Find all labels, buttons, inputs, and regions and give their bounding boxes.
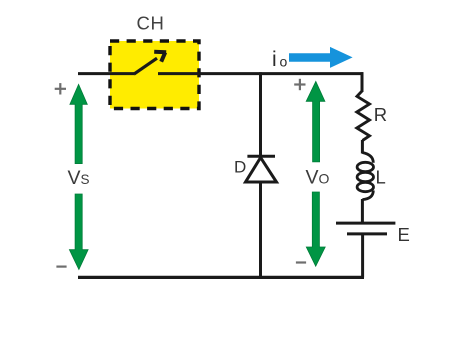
svg-text:D: D <box>234 157 246 176</box>
svg-text:V: V <box>68 167 81 189</box>
source voltage arrow Vs down <box>69 194 88 270</box>
svg-text:i: i <box>272 48 277 71</box>
wire right branch to resistor <box>361 72 364 92</box>
svg-text:S: S <box>81 172 90 187</box>
diode D cathode bar <box>247 155 275 158</box>
inductor L <box>357 153 373 200</box>
resistor R <box>357 91 370 141</box>
wire resistor to inductor <box>361 140 364 154</box>
minus sign Vo <box>296 261 306 263</box>
output voltage arrow Vo down <box>306 192 325 266</box>
svg-text:E: E <box>398 224 410 245</box>
svg-text:L: L <box>376 167 386 188</box>
svg-text:O: O <box>319 171 330 187</box>
battery E bottom plate <box>347 232 387 235</box>
chopper block CH (yellow dashed box) <box>110 41 199 109</box>
svg-text:V: V <box>306 167 319 189</box>
output voltage arrow Vo up <box>306 81 325 161</box>
svg-text:R: R <box>374 104 387 125</box>
wire top-right segment <box>158 72 363 75</box>
plus sign Vs <box>55 83 66 94</box>
battery E top plate <box>336 222 395 225</box>
bottom wire <box>78 276 364 279</box>
wire top-left segment <box>78 72 134 75</box>
wire battery to bottom <box>361 234 364 278</box>
svg-text:o: o <box>280 54 288 70</box>
svg-text:CH: CH <box>137 13 165 34</box>
source voltage arrow Vs up <box>70 84 87 163</box>
wire inductor to battery <box>361 199 364 223</box>
plus sign Vo <box>294 79 305 90</box>
diode D triangle <box>246 158 277 183</box>
switch CH blade <box>134 58 157 74</box>
diode branch wire bottom <box>259 182 262 277</box>
diode branch wire top <box>259 72 262 156</box>
minus sign Vs <box>56 266 66 268</box>
switch arrowhead <box>154 52 166 62</box>
current arrow io (blue) <box>289 47 353 68</box>
